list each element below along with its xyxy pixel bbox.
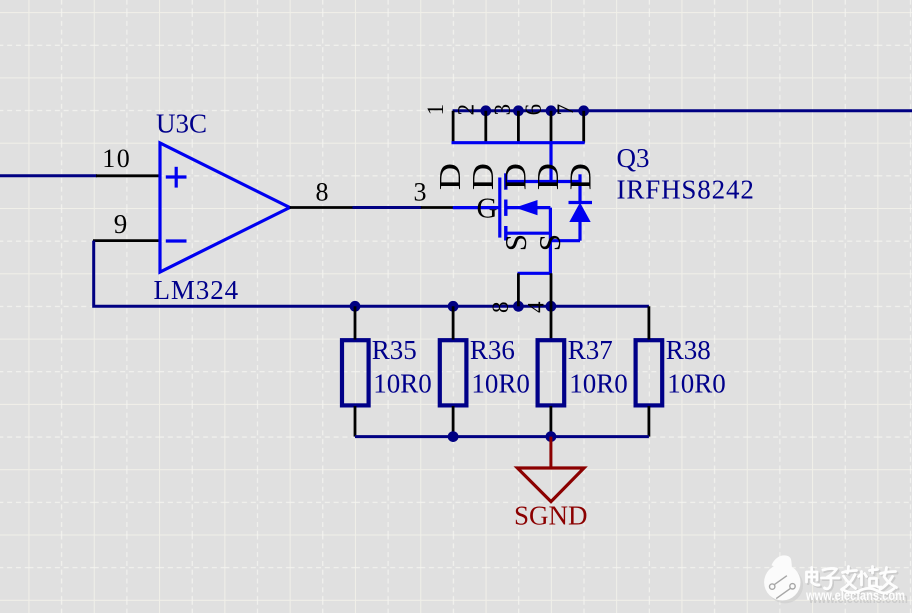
svg-text:S: S: [532, 234, 567, 251]
svg-text:10R0: 10R0: [471, 368, 530, 398]
pin name D (pin7): [564, 163, 598, 190]
svg-text:10: 10: [102, 144, 131, 173]
svg-text:R38: R38: [666, 335, 711, 365]
junction dot drain pin 6: [546, 105, 557, 116]
resistor R38: [636, 306, 663, 436]
value label 10R0 of R35: [373, 368, 432, 398]
pin name D (pin6): [531, 163, 565, 190]
svg-text:10R0: 10R0: [667, 368, 726, 398]
resistor R35: [342, 306, 369, 436]
svg-text:1: 1: [423, 104, 448, 116]
wire bottom bus net: [355, 435, 649, 438]
transistor Q3 MOSFET symbol: [452, 143, 585, 274]
part label LM324: [154, 275, 240, 305]
junction dot at R37 bottom / SGND: [546, 431, 557, 442]
drain pin 7 of Q3: [553, 104, 584, 143]
resistor R36: [440, 306, 467, 436]
svg-text:D: D: [433, 163, 467, 190]
label R37: [568, 335, 613, 365]
body diode of Q3: [569, 174, 593, 240]
part label IRFHS8242: [617, 175, 755, 205]
svg-text:SGND: SGND: [514, 500, 588, 530]
watermark logo: [764, 555, 803, 603]
value label 10R0 of R37: [569, 368, 628, 398]
wire drain net along top: [453, 109, 912, 112]
drain pin 1 of Q3: [423, 104, 453, 143]
svg-text:8: 8: [488, 301, 513, 313]
resistor R37: [538, 340, 565, 436]
label R35: [372, 335, 417, 365]
drain pin 2 of Q3: [454, 104, 486, 143]
svg-text:10R0: 10R0: [373, 368, 432, 398]
ground SGND: [517, 437, 584, 502]
svg-text:9: 9: [114, 209, 128, 239]
svg-text:D: D: [499, 163, 533, 190]
svg-text:D: D: [564, 163, 598, 190]
pin name S (pin4): [532, 234, 567, 251]
svg-text:R37: R37: [568, 335, 613, 365]
junction dot at R36 bottom: [448, 431, 459, 442]
svg-text:6: 6: [521, 104, 546, 116]
svg-text:R35: R35: [372, 335, 417, 365]
junction dot at R36 top: [448, 301, 459, 312]
drain pin 6 of Q3: [521, 104, 551, 143]
svg-text:U3C: U3C: [156, 109, 207, 139]
label R36: [470, 335, 515, 365]
pin name D (pin1): [433, 163, 467, 190]
wire input net to pin 10: [0, 174, 97, 177]
pin name G: [477, 192, 498, 224]
pin name D (pin3): [499, 163, 533, 190]
op-amp U3C: [160, 143, 290, 272]
designator label Q3: [617, 143, 650, 173]
pin name D (pin2): [466, 163, 500, 190]
svg-text:Q3: Q3: [617, 143, 650, 173]
pin 8 of U3C (output): [290, 177, 353, 207]
junction dot at Q3 pin 4 / R37 top: [546, 301, 557, 312]
watermark url www.elecfans.com: [805, 588, 908, 606]
net label SGND: [514, 500, 588, 530]
value label 10R0 of R36: [471, 368, 530, 398]
source pin 8 of Q3: [488, 273, 518, 313]
svg-text:www.elecfans.com: www.elecfans.com: [805, 588, 905, 603]
junction dot drain pin 3: [513, 105, 524, 116]
junction dot at Q3 pin 8: [513, 301, 524, 312]
svg-text:10R0: 10R0: [569, 368, 628, 398]
svg-text:7: 7: [553, 104, 578, 116]
designator label U3C: [156, 109, 207, 139]
pin name S (pin8): [498, 234, 533, 251]
pin 3 gate pin of Q3: [414, 177, 454, 207]
watermark text elecfans: [807, 567, 899, 595]
value label 10R0 of R38: [667, 368, 726, 398]
svg-text:D: D: [466, 163, 500, 190]
junction dot at R35 top: [350, 301, 361, 312]
svg-text:R36: R36: [470, 335, 515, 365]
svg-text:3: 3: [414, 177, 427, 206]
source pin 4 of Q3: [524, 273, 551, 339]
svg-text:8: 8: [316, 177, 329, 206]
drain pin 3 of Q3: [490, 104, 518, 143]
label R38: [666, 335, 711, 365]
junction dot drain pin 2: [480, 105, 491, 116]
pin 9 of U3C: [93, 209, 160, 240]
junction dot drain pin 7: [578, 105, 589, 116]
svg-text:G: G: [477, 192, 498, 224]
pin 10 of U3C: [96, 144, 160, 176]
svg-text:IRFHS8242: IRFHS8242: [617, 175, 755, 205]
svg-text:4: 4: [524, 301, 549, 313]
wire feedback net from pin 9 to resistor bus: [94, 241, 649, 307]
svg-text:LM324: LM324: [154, 275, 240, 305]
wire output net pin8 to pin3: [353, 206, 422, 209]
svg-text:D: D: [531, 163, 565, 190]
svg-text:3: 3: [490, 104, 515, 116]
svg-text:S: S: [498, 234, 533, 251]
svg-text:2: 2: [454, 104, 479, 116]
